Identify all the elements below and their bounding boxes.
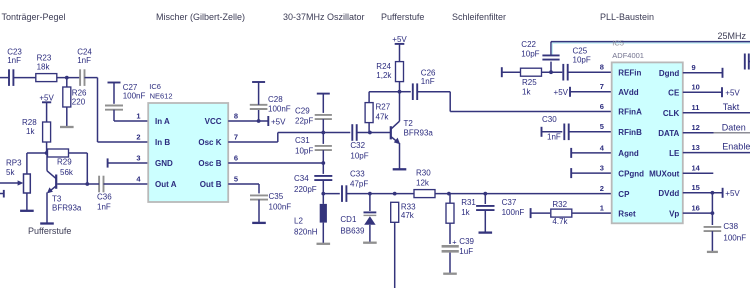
svg-text:56k: 56k (60, 168, 74, 177)
svg-text:5k: 5k (6, 168, 15, 177)
svg-text:1k: 1k (26, 127, 35, 136)
svg-text:100nF: 100nF (123, 92, 146, 101)
svg-text:47k: 47k (401, 211, 415, 220)
svg-text:Rset: Rset (618, 209, 636, 218)
svg-text:DVdd: DVdd (658, 189, 679, 198)
svg-text:30-37MHz Oszillator: 30-37MHz Oszillator (283, 12, 365, 22)
svg-text:DATA: DATA (658, 129, 679, 138)
svg-text:10pF: 10pF (573, 56, 591, 65)
svg-text:REFin: REFin (618, 68, 641, 77)
svg-text:Vp: Vp (669, 209, 679, 218)
svg-text:T3: T3 (52, 195, 62, 204)
svg-text:25MHz: 25MHz (718, 31, 747, 41)
svg-text:6: 6 (234, 153, 238, 162)
svg-text:C32: C32 (350, 141, 365, 150)
svg-text:Agnd: Agnd (618, 149, 639, 158)
svg-text:BFR93a: BFR93a (52, 204, 82, 213)
svg-text:Out B: Out B (200, 180, 222, 189)
svg-text:GND: GND (155, 159, 173, 168)
svg-text:3: 3 (136, 153, 140, 162)
svg-text:AVdd: AVdd (618, 88, 638, 97)
svg-text:CP: CP (618, 190, 630, 199)
svg-text:IC6: IC6 (149, 82, 161, 91)
svg-text:220pF: 220pF (294, 185, 317, 194)
svg-text:BB639: BB639 (340, 226, 365, 235)
svg-text:Osc B: Osc B (198, 159, 221, 168)
svg-text:C36: C36 (97, 193, 112, 202)
svg-text:Tonträger-Pegel: Tonträger-Pegel (2, 12, 66, 22)
svg-text:4.7k: 4.7k (552, 217, 568, 226)
svg-text:MUXout: MUXout (649, 170, 680, 179)
svg-text:4: 4 (600, 143, 605, 152)
svg-text:2: 2 (136, 132, 140, 141)
svg-text:6: 6 (600, 102, 604, 111)
svg-text:C22: C22 (521, 40, 536, 49)
svg-text:R25: R25 (522, 78, 537, 87)
svg-text:C25: C25 (573, 47, 588, 56)
svg-text:1nF: 1nF (7, 56, 21, 65)
svg-text:Schleifenfilter: Schleifenfilter (452, 12, 506, 22)
svg-text:BFR93a: BFR93a (404, 129, 434, 138)
svg-text:9: 9 (692, 63, 696, 72)
svg-text:R29: R29 (57, 158, 72, 167)
svg-text:14: 14 (692, 164, 701, 173)
svg-text:R30: R30 (416, 168, 431, 177)
svg-text:1,2k: 1,2k (376, 71, 392, 80)
svg-text:13: 13 (692, 143, 700, 152)
svg-text:1nF: 1nF (97, 202, 111, 211)
svg-text:10: 10 (692, 83, 700, 92)
svg-text:Pufferstufe: Pufferstufe (381, 12, 424, 22)
svg-text:3: 3 (600, 164, 604, 173)
svg-text:12k: 12k (416, 179, 430, 188)
svg-text:CLK: CLK (663, 109, 680, 118)
svg-text:C30: C30 (542, 115, 557, 124)
svg-text:5: 5 (600, 122, 604, 131)
svg-text:47k: 47k (376, 113, 390, 122)
svg-text:R26: R26 (72, 88, 87, 97)
svg-text:C35: C35 (269, 192, 284, 201)
svg-text:C38: C38 (723, 222, 738, 231)
svg-text:C28: C28 (268, 95, 283, 104)
svg-text:C26: C26 (421, 68, 436, 77)
svg-text:100nF: 100nF (502, 208, 525, 217)
svg-text:10pF: 10pF (295, 147, 313, 156)
svg-text:1uF: 1uF (459, 247, 473, 256)
svg-text:L2: L2 (294, 216, 303, 225)
svg-text:4: 4 (136, 174, 141, 183)
svg-text:RFinA: RFinA (618, 108, 642, 117)
svg-text:16: 16 (692, 204, 700, 213)
svg-text:LE: LE (669, 149, 680, 158)
svg-text:R24: R24 (376, 62, 391, 71)
svg-text:IC5: IC5 (612, 39, 624, 48)
svg-text:820nH: 820nH (294, 228, 318, 237)
svg-text:Daten: Daten (722, 122, 746, 132)
svg-text:Pufferstufe: Pufferstufe (28, 226, 71, 236)
svg-text:C39: C39 (459, 237, 474, 246)
svg-text:Out A: Out A (155, 180, 177, 189)
svg-text:7: 7 (600, 82, 604, 91)
svg-text:10pF: 10pF (521, 50, 539, 59)
svg-text:12: 12 (692, 123, 700, 132)
svg-text:+5V: +5V (271, 118, 286, 127)
svg-text:11: 11 (692, 103, 700, 112)
svg-text:R31: R31 (461, 198, 476, 207)
svg-text:+5V: +5V (392, 35, 407, 44)
svg-text:10pF: 10pF (350, 151, 368, 160)
svg-text:+5V: +5V (39, 94, 54, 103)
svg-text:1k: 1k (461, 208, 470, 217)
svg-text:R32: R32 (552, 200, 567, 209)
svg-text:100nF: 100nF (269, 202, 292, 211)
svg-text:8: 8 (600, 63, 604, 72)
svg-text:2: 2 (600, 184, 604, 193)
svg-text:CE: CE (668, 88, 680, 97)
svg-text:R23: R23 (37, 54, 52, 63)
svg-text:15: 15 (692, 183, 700, 192)
svg-text:ADF4001: ADF4001 (612, 51, 644, 60)
svg-text:Mischer (Gilbert-Zelle): Mischer (Gilbert-Zelle) (156, 12, 245, 22)
svg-text:C34: C34 (294, 174, 309, 183)
svg-text:18k: 18k (37, 62, 51, 71)
svg-text:1nF: 1nF (421, 77, 435, 86)
svg-text:C29: C29 (295, 106, 310, 115)
svg-text:22pF: 22pF (295, 117, 313, 126)
svg-text:NE612: NE612 (150, 91, 173, 100)
svg-text:8: 8 (234, 111, 238, 120)
svg-text:CD1: CD1 (340, 215, 357, 224)
svg-text:In B: In B (155, 138, 170, 147)
svg-text:100nF: 100nF (268, 104, 291, 113)
svg-text:+5V: +5V (725, 88, 740, 97)
svg-text:RP3: RP3 (6, 158, 22, 167)
svg-text:+: + (452, 237, 457, 246)
svg-text:1nF: 1nF (77, 56, 91, 65)
svg-text:Dgnd: Dgnd (659, 69, 680, 78)
svg-text:1: 1 (600, 204, 604, 213)
svg-text:100nF: 100nF (723, 233, 746, 242)
svg-text:+5V: +5V (554, 88, 569, 97)
svg-text:In A: In A (155, 117, 170, 126)
svg-text:Osc K: Osc K (198, 138, 221, 147)
svg-text:C31: C31 (295, 136, 310, 145)
svg-text:C33: C33 (350, 170, 365, 179)
svg-text:T2: T2 (404, 119, 414, 128)
svg-text:Takt: Takt (723, 102, 740, 112)
svg-text:1k: 1k (522, 87, 531, 96)
svg-text:47pF: 47pF (350, 180, 368, 189)
svg-text:R27: R27 (376, 102, 391, 111)
svg-text:1: 1 (136, 111, 140, 120)
svg-text:CPgnd: CPgnd (618, 169, 644, 178)
svg-text:5: 5 (234, 174, 238, 183)
svg-text:PLL-Baustein: PLL-Baustein (600, 12, 654, 22)
svg-text:1nF: 1nF (547, 133, 561, 142)
svg-text:C37: C37 (502, 198, 517, 207)
svg-text:220: 220 (72, 98, 86, 107)
svg-text:VCC: VCC (205, 117, 222, 126)
svg-text:+5V: +5V (725, 189, 740, 198)
svg-text:Enable: Enable (722, 142, 750, 152)
svg-text:RFinB: RFinB (618, 128, 642, 137)
svg-text:7: 7 (234, 132, 238, 141)
